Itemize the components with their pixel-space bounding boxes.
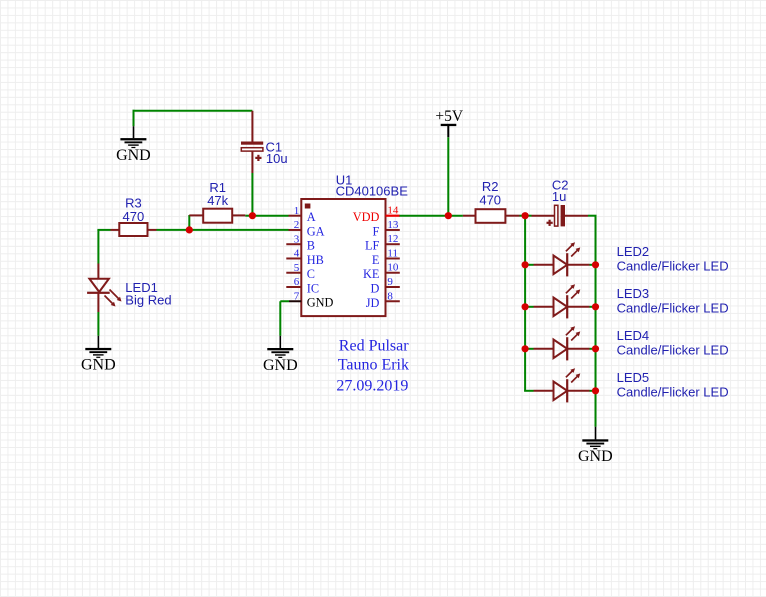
svg-text:HB: HB [307,253,324,267]
wire: LED2 anode stub [524,264,533,266]
ground at LED1 cathode [81,348,116,374]
resistor R1 [203,209,232,223]
wire: LED2 cathode stub [590,264,596,266]
svg-text:LED2: LED2 [617,244,650,259]
ground stem at LED1 [97,336,99,348]
svg-text:9: 9 [387,276,393,288]
ground GND1 (top left) [116,138,151,164]
power +5V symbol [435,108,463,137]
wire: R2 right to junction [520,215,532,217]
svg-text:CD40106BE: CD40106BE [336,183,409,198]
svg-text:Candle/Flicker LED: Candle/Flicker LED [617,343,729,358]
junction: +5V/VDD/R2 [445,212,452,219]
svg-text:13: 13 [387,219,399,231]
wire: VDD pin to R2 [399,215,463,217]
wire: R1 right to junction [245,215,252,217]
svg-text:GND: GND [263,357,298,374]
U1 left pin labels [307,210,334,310]
junction: right column LED3 [592,303,599,310]
svg-text:GND: GND [116,147,151,164]
C2 leads [532,215,555,217]
wire: C1 bottom to junction [251,173,253,216]
svg-text:27.09.2019: 27.09.2019 [336,377,408,394]
C1 leads [251,111,253,142]
svg-text:3: 3 [294,233,300,245]
LED LED3 symbol [554,284,581,318]
wire: LED5 cathode stub [590,390,596,392]
svg-text:10: 10 [387,262,399,274]
wire: junction to U1 pin 1 [252,215,288,217]
U1 left pin stubs [286,216,301,302]
U1 left pin numbers 1-7 [294,205,300,303]
resistor R3 [119,223,147,236]
R3 leads [111,229,120,231]
svg-text:LED5: LED5 [617,370,650,385]
svg-text:47k: 47k [207,193,228,208]
junction: R1/lower net [186,226,193,233]
wire: LED1 anode vertical [97,230,99,264]
wire: U1 pin 7 to GND2 horizontal [280,300,289,302]
R1 leads [189,214,203,216]
capacitor C1 (polarized) [241,142,263,162]
svg-text:+5V: +5V [435,108,463,125]
U1 right pin labels [353,210,380,310]
svg-text:Tauno Erik: Tauno Erik [338,356,409,373]
svg-text:Candle/Flicker LED: Candle/Flicker LED [617,301,729,316]
U1 right pin numbers 14-8 [387,205,399,303]
wire: C2 right to right column [588,215,597,217]
svg-text:IC: IC [307,281,319,295]
wire: top horizontal GND1 to C1 [133,110,253,112]
LED2 leads [534,264,554,266]
LED4 leads [534,348,554,350]
svg-text:D: D [371,282,380,296]
svg-text:4: 4 [294,248,300,260]
svg-text:B: B [307,239,315,253]
svg-text:1: 1 [294,205,300,217]
R2 leads [463,215,476,217]
U1 pin 1 marker [305,204,311,209]
svg-text:A: A [307,210,316,224]
wire: LED3 cathode stub [590,306,596,308]
svg-text:470: 470 [479,193,501,208]
op-amp/IC U1 CD40106BE body [301,199,385,316]
svg-text:14: 14 [387,205,399,217]
wire: LED3 anode stub [524,306,533,308]
wire: GND2 vertical [279,301,281,336]
LED5 leads [534,390,554,392]
svg-text:10u: 10u [266,151,288,166]
wire: LED4 anode stub [524,348,533,350]
svg-text:GA: GA [307,224,325,238]
svg-text:1u: 1u [552,189,566,204]
resistor R2 [476,209,506,223]
wire: LED1 cathode to GND [97,312,99,336]
junction: left column LED4 [522,345,529,352]
LED1 leads [97,264,99,280]
wire: LED5 anode stub [524,390,533,392]
svg-text:Big Red: Big Red [125,292,171,307]
wire: +5V stem [447,137,449,216]
wire: LED4 cathode stub [590,348,596,350]
LED D1 (LED1 Big Red) symbol [87,279,121,307]
ground stem GND1 [133,126,135,138]
svg-text:VDD: VDD [353,210,380,224]
U1 pin 14 stub (highlighted net) [386,215,400,217]
ground stem GND3 [595,427,597,440]
svg-text:KE: KE [363,267,379,281]
LED LED4 symbol [554,326,581,360]
capacitor C2 (polarized) [547,205,566,226]
junction: right column LED4 [592,345,599,352]
LED3 leads [534,306,554,308]
svg-text:F: F [373,224,380,238]
svg-text:Candle/Flicker LED: Candle/Flicker LED [617,259,729,274]
svg-text:GND: GND [81,357,116,374]
svg-text:Red Pulsar: Red Pulsar [339,338,409,355]
svg-text:2: 2 [294,219,300,231]
svg-text:LED3: LED3 [617,286,650,301]
wire: GND1 vertical drop [133,110,135,126]
svg-text:7: 7 [294,290,300,302]
svg-text:JD: JD [366,296,380,310]
svg-text:E: E [372,253,380,267]
wire: left LED column vertical [524,216,526,391]
svg-text:GND: GND [307,296,334,310]
svg-text:LF: LF [365,239,380,253]
LED LED2 symbol [554,242,581,276]
svg-text:11: 11 [387,247,398,259]
LED LED5 symbol [554,368,581,402]
svg-text:GND: GND [578,448,613,465]
wire: R3 left to LED1 top corner [97,229,110,231]
wire: right LED column vertical [595,216,597,427]
svg-text:12: 12 [387,233,398,245]
junction: right column LED2 [592,261,599,268]
svg-text:C: C [307,267,315,281]
ground GND2 (below U1) [263,348,298,374]
svg-text:6: 6 [294,276,300,288]
junction: left column LED3 [522,303,529,310]
ground GND3 (bottom right) [578,439,613,465]
junction: R2/C2/left column [522,212,529,219]
junction: C1/R1/pin1 [249,212,256,219]
junction: right column LED5 [592,387,599,394]
svg-text:8: 8 [387,290,393,302]
wire: R1 left vertical to lower net [188,215,190,230]
U1 right pin stubs [386,230,400,301]
ground stem GND2 [279,336,281,348]
junction: left column LED2 [522,261,529,268]
svg-text:Candle/Flicker LED: Candle/Flicker LED [617,385,729,400]
svg-text:470: 470 [123,209,145,224]
wire: lower net R3 to U1 pin 2 [157,229,289,231]
svg-text:5: 5 [294,262,300,274]
svg-text:LED4: LED4 [617,328,650,343]
